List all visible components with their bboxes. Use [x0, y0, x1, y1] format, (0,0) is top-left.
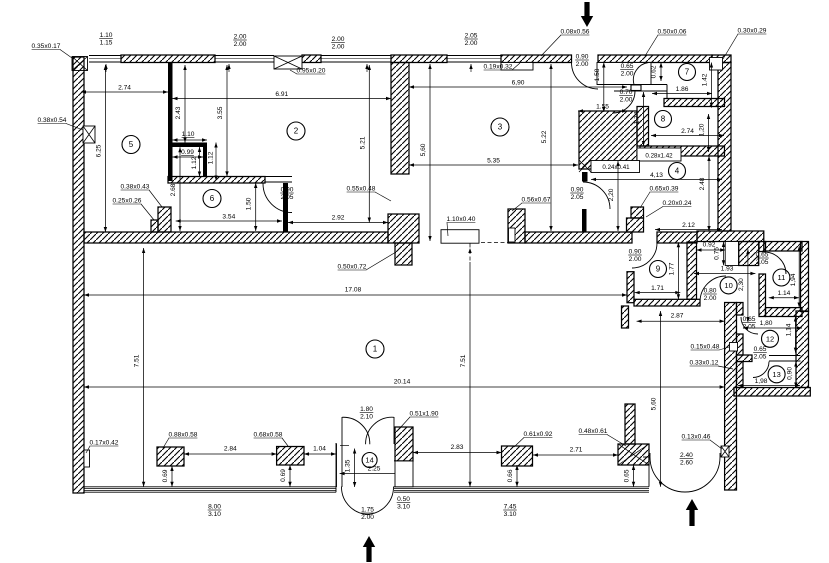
door D13 arc 0.65x2.05 [753, 362, 769, 378]
label 1.80/2.10 door14 inner [360, 406, 374, 420]
dim 2.25 door14 [340, 466, 412, 476]
svg-text:0.88x0.58: 0.88x0.58 [169, 432, 198, 439]
svg-text:0.24x0.41: 0.24x0.41 [602, 164, 630, 171]
svg-text:0.90: 0.90 [571, 187, 584, 194]
door D3 arc in top wall 0.90x2.00 [572, 63, 599, 90]
room6 top wall hatched (3.54 wall) [168, 177, 265, 184]
dim 0.69 pillar P1 [162, 466, 174, 487]
svg-text:1: 1 [373, 345, 378, 354]
room 2 label [287, 122, 305, 140]
dim 1.55 block [578, 104, 627, 113]
pillar P2 0.68x0.58 hatched [277, 447, 304, 466]
svg-text:1.10x0.40: 1.10x0.40 [447, 216, 476, 223]
wall above door to room 12 [737, 303, 744, 316]
dim 0.92 wing slot [697, 242, 726, 252]
dim 5.21 room2 height [359, 65, 371, 223]
entrance door 14 jamb block 0.51x1.90 hatched [395, 427, 413, 461]
svg-text:5.21: 5.21 [359, 136, 366, 149]
svg-text:1,94: 1,94 [790, 273, 797, 286]
svg-text:1.75: 1.75 [361, 507, 374, 514]
closet top wall (1.10) [168, 143, 207, 148]
central niche outline (top middle, 1.58 zone) [597, 63, 651, 85]
svg-text:4,13: 4,13 [650, 172, 663, 179]
door room6 header [265, 177, 292, 183]
svg-text:9: 9 [656, 265, 661, 274]
wall between rooms 8 and 4 hatched [640, 146, 725, 156]
dim 0.90 room13 height [786, 362, 797, 388]
dim 2.92 mid wall [288, 215, 388, 225]
threshold box at D8 [631, 85, 641, 91]
dim 4,13 room4 [591, 172, 722, 181]
svg-text:3.10: 3.10 [397, 503, 410, 510]
wall between rooms 7 and 8 hatched [664, 99, 725, 107]
svg-text:1.35: 1.35 [345, 459, 352, 472]
dim 5.35 room3 [409, 158, 578, 167]
door D6 arc 0.90x2.05 [263, 184, 292, 213]
entrance arrow bottom right [686, 499, 698, 526]
svg-text:2.05: 2.05 [756, 259, 769, 266]
label 0.25x0.26 [113, 198, 154, 221]
wall between rooms 10 and 11 lower hatched [759, 274, 766, 317]
wall left of room 8 hatched [637, 107, 649, 147]
label 0.95x0.20 [290, 68, 326, 75]
window W2 top 2.00 [215, 56, 274, 63]
mid main wall center section hatched [525, 232, 632, 243]
dim 0.65 pillar P4 [624, 465, 636, 487]
dim 2.12 room4 bottom [655, 222, 722, 231]
svg-text:0.48x0.61: 0.48x0.61 [579, 428, 608, 435]
wall between rooms 2 and 3 hatched [391, 63, 409, 175]
label 0.19x0.32 [484, 63, 520, 71]
room13 top wall thin [769, 356, 801, 362]
svg-text:5.35: 5.35 [487, 158, 500, 165]
svg-text:0.17x0.42: 0.17x0.42 [90, 440, 119, 447]
svg-text:17.08: 17.08 [345, 287, 362, 294]
svg-text:0.90: 0.90 [576, 54, 589, 61]
wing: bottom wall hatched [734, 388, 810, 397]
svg-text:2.05: 2.05 [281, 194, 294, 201]
svg-text:0.68x0.58: 0.68x0.58 [254, 432, 283, 439]
room 5 label [122, 136, 140, 154]
svg-text:11: 11 [778, 273, 786, 282]
top-right corner notch 0.30x0.29 [710, 58, 723, 71]
wing right wall lower (wider) [796, 311, 809, 388]
svg-text:2.00: 2.00 [576, 61, 589, 68]
label 0.90/2.00 door D3 [575, 54, 589, 68]
svg-text:1.04: 1.04 [313, 446, 326, 453]
svg-text:1,14: 1,14 [786, 323, 793, 336]
svg-text:2.43: 2.43 [175, 106, 182, 119]
label 1.10x0.40 [447, 216, 476, 236]
svg-text:1.10: 1.10 [100, 32, 113, 39]
svg-text:1.80: 1.80 [360, 406, 373, 413]
svg-text:10: 10 [724, 281, 732, 290]
hanging block 0.50x0.72 below mid wall [395, 243, 412, 265]
svg-text:2.87: 2.87 [671, 313, 684, 320]
room 14 label [362, 453, 377, 468]
dim 2,30 room10 [738, 249, 750, 322]
left wall pillar 0.38x0.54 with X [83, 126, 95, 143]
svg-text:2.92: 2.92 [332, 215, 345, 222]
svg-text:3.10: 3.10 [504, 511, 517, 518]
big central wall block hatched [579, 111, 637, 169]
label 0.65/2.05 door D12 [742, 316, 756, 330]
window W4 top 2.05 [447, 56, 501, 63]
dim 6,90 room3 [409, 80, 627, 89]
pillar P1 0.88x0.58 hatched [157, 447, 184, 466]
room 1 label [366, 340, 384, 358]
svg-text:0.65: 0.65 [624, 469, 631, 482]
dim 1.71 room9 [635, 285, 681, 294]
svg-text:2.00: 2.00 [234, 34, 247, 41]
labeled box 0.24x0.41 with X end [591, 161, 640, 173]
svg-text:2,30: 2,30 [738, 278, 745, 291]
svg-text:1.74: 1.74 [634, 111, 641, 124]
svg-text:0.51x1.90: 0.51x1.90 [410, 411, 439, 418]
svg-text:2: 2 [294, 127, 299, 136]
svg-text:3.54: 3.54 [222, 214, 235, 221]
dim 5.22 room3 right height [541, 64, 553, 231]
dim 2.71 [533, 447, 618, 457]
svg-text:6.25: 6.25 [96, 144, 103, 157]
dim 1.04 [304, 446, 336, 456]
svg-text:2.74: 2.74 [118, 85, 131, 92]
label 0.48x0.61 [579, 428, 626, 446]
svg-text:2.83: 2.83 [451, 444, 464, 451]
label 2.40/2.60 right entrance [680, 452, 694, 466]
bottom wall left terminal caps [335, 443, 337, 492]
svg-text:2.00: 2.00 [361, 514, 374, 521]
svg-text:0,90: 0,90 [786, 367, 793, 380]
svg-text:0.66: 0.66 [507, 469, 514, 482]
svg-text:14: 14 [365, 456, 373, 465]
label 0.56x0.67 [512, 197, 551, 212]
svg-text:0.99: 0.99 [181, 149, 194, 156]
wall stub right of room6 [283, 183, 288, 232]
dim 1.35 door14 [345, 449, 357, 488]
room 9 label [650, 261, 667, 278]
svg-text:2.00: 2.00 [332, 36, 345, 43]
svg-text:2.60: 2.60 [680, 459, 693, 466]
svg-text:0.95x0.20: 0.95x0.20 [297, 68, 326, 75]
door 14 frame lines [337, 417, 412, 487]
svg-text:0.69: 0.69 [162, 469, 169, 482]
room 4 label [669, 163, 686, 180]
svg-text:2.00: 2.00 [234, 41, 247, 48]
label 0.13x0.46 [682, 434, 722, 450]
dim 1,94 room11 [790, 246, 801, 308]
svg-text:5,60: 5,60 [651, 397, 658, 410]
label 7.45/3.10 [503, 504, 517, 518]
svg-text:3.10: 3.10 [208, 511, 221, 518]
svg-text:0.19x0.32: 0.19x0.32 [484, 64, 513, 71]
notch element 0.15x0.48 on right wall [730, 343, 738, 352]
closet dim line 1.12 inner [198, 147, 201, 177]
dim 2.68 [170, 147, 182, 231]
svg-text:2.00: 2.00 [704, 295, 717, 302]
svg-text:0.65: 0.65 [756, 252, 769, 259]
svg-text:1.14: 1.14 [777, 290, 790, 297]
room4 left wall upper [582, 172, 588, 182]
svg-text:3: 3 [498, 123, 503, 132]
mid main wall left section hatched [84, 232, 388, 243]
wing: mid wall extension hatched [697, 231, 764, 242]
label 0.38x0.54 [38, 117, 83, 130]
dim 0.62 [651, 63, 663, 82]
label 0.90/2.05 door D6 [280, 187, 294, 201]
dim 0.69 pillar P2 [280, 465, 292, 487]
room 3 label [491, 118, 509, 136]
label 0.30x0.29 [723, 28, 767, 60]
svg-text:0.80: 0.80 [704, 288, 717, 295]
label 2.00/2.00 window [233, 34, 247, 48]
svg-text:7: 7 [685, 68, 690, 77]
label 0.35x0.17 [32, 43, 72, 58]
dim 2.84 pillars [184, 446, 277, 456]
svg-text:2.05: 2.05 [754, 353, 767, 360]
svg-text:2.00: 2.00 [620, 96, 633, 103]
wall stub above pillar P4 hatched [625, 404, 635, 444]
wall between rooms 10 and 11 upper hatched [759, 242, 766, 252]
room9 bottom wall hatched [634, 299, 700, 306]
svg-text:0.90: 0.90 [281, 187, 294, 194]
label 0.17x0.42 [86, 440, 119, 454]
svg-text:0.50x0.72: 0.50x0.72 [338, 264, 367, 271]
label 0.38x0.43 [121, 184, 162, 208]
sill element 1.10x0.40 [441, 230, 479, 244]
dim 6.25 room5 height [96, 65, 108, 232]
svg-text:0.15x0.48: 0.15x0.48 [691, 344, 720, 351]
label 0.80/2.00 door D10 [703, 288, 717, 302]
dim 20.14 room1 [84, 379, 725, 389]
dim 3.55 [217, 65, 229, 176]
svg-text:0.08x0.56: 0.08x0.56 [561, 29, 590, 36]
wing: pier right of slot hatched [739, 242, 759, 266]
label 0.90/2.05 door D4 [570, 187, 584, 201]
svg-text:2.12: 2.12 [682, 222, 695, 229]
bottom shop-front wall (multi thin lines) left part [84, 486, 336, 488]
room 12 label [762, 330, 779, 347]
room9 right wall hatched [687, 242, 697, 299]
svg-text:2.00: 2.00 [629, 256, 642, 263]
svg-text:0.55x0.48: 0.55x0.48 [347, 186, 376, 193]
mid wall pillar 0.56x0.67 hatched [508, 209, 525, 243]
svg-text:1,80: 1,80 [760, 320, 773, 327]
white notch in pillar 0.56x0.67 [509, 228, 516, 242]
svg-text:7.51: 7.51 [460, 354, 467, 367]
door 14 upper leaf arcs (1.80x2.10) [342, 417, 370, 444]
svg-text:0.13x0.46: 0.13x0.46 [682, 434, 711, 441]
door14 jamb lower white part [395, 461, 413, 487]
door D12 arc 0.65x2.05 [741, 317, 758, 334]
element 0.95x0.20 in top wall [274, 56, 302, 69]
dim 1.42 room7 [701, 63, 713, 108]
dim 2.74 room8 [651, 128, 724, 137]
svg-text:6: 6 [210, 194, 215, 203]
label 0.70/2.00 door D8 [619, 89, 633, 103]
closet dim label 0.99 [181, 149, 194, 156]
left wall step 0.17x0.42 [84, 450, 90, 467]
svg-text:5.22: 5.22 [541, 130, 548, 143]
dim 1,20 room8 [699, 114, 711, 152]
room12 left wall hatched [737, 334, 744, 355]
pillar P3 0.61x0.92 hatched [502, 446, 533, 466]
entrance arrow top [581, 2, 593, 27]
dim 0.75 wing slot [714, 242, 726, 265]
wall between rooms 12 and 13 hatched [737, 355, 753, 362]
wing: top wall right step hatched [764, 242, 802, 252]
dim 2.87 wing opening [637, 313, 725, 323]
closet dim line 0.99 [173, 155, 204, 158]
door D9 arc 0.90x2.00 [632, 243, 657, 268]
dim 3.54 room6 [176, 214, 282, 223]
door D7 arc 0.65x2.00 [633, 63, 648, 85]
svg-text:0.75: 0.75 [714, 247, 721, 260]
svg-text:0.30x0.29: 0.30x0.29 [738, 28, 767, 35]
svg-text:2.10: 2.10 [360, 413, 373, 420]
svg-text:0.61x0.92: 0.61x0.92 [524, 431, 553, 438]
svg-text:2.00: 2.00 [332, 43, 345, 50]
dashed opening line in mid wall [481, 242, 508, 244]
label 0.20x0.24 [646, 200, 692, 217]
svg-text:8: 8 [661, 115, 666, 124]
label 1.10/1.15 window [99, 32, 113, 46]
left outer wall hatched [73, 57, 84, 493]
svg-text:8.00: 8.00 [208, 504, 221, 511]
svg-text:1.86: 1.86 [676, 86, 689, 93]
entrance arrow bottom door14 [363, 536, 375, 562]
window W3 top 2.00 [321, 56, 391, 63]
svg-text:2.71: 2.71 [570, 447, 583, 454]
label 0.50x0.72 [338, 252, 396, 271]
svg-text:1,20: 1,20 [699, 123, 706, 136]
room4 left wall lower stub [582, 209, 587, 232]
svg-text:6.91: 6.91 [275, 91, 288, 98]
svg-text:0.25x0.26: 0.25x0.26 [113, 198, 142, 205]
svg-text:1.15: 1.15 [100, 39, 113, 46]
pillar P4 0.48x0.61 hatched with X [618, 444, 649, 465]
main right wall below wing hatched [725, 303, 737, 491]
svg-text:0.69: 0.69 [280, 469, 287, 482]
svg-text:7.51: 7.51 [134, 354, 141, 367]
dim 1,98 room13 [738, 378, 800, 387]
label 2.05/2.00 window3 [464, 33, 478, 47]
wing: right outer wall hatched [801, 242, 809, 312]
label 0.50x0.06 [645, 29, 687, 57]
dim 1.58 [594, 63, 606, 113]
svg-text:2.05: 2.05 [465, 33, 478, 40]
room 7 label [679, 64, 696, 81]
svg-text:0.28x1.42: 0.28x1.42 [645, 153, 673, 160]
dim 5,60 room1 bottom right [651, 311, 663, 487]
svg-text:1.71: 1.71 [651, 285, 664, 292]
svg-text:0.33x0.12: 0.33x0.12 [690, 360, 719, 367]
wing: duct slot (0.92x0.75) [725, 242, 739, 266]
room 13 label [768, 366, 785, 383]
top wall notch 0.19x0.32 [501, 63, 533, 71]
right outer wall (top section) hatched [718, 63, 731, 232]
window dim arrows [104, 64, 107, 72]
top-left corner pillar with X [72, 57, 88, 71]
svg-text:0.90: 0.90 [629, 249, 642, 256]
svg-text:0.56x0.67: 0.56x0.67 [522, 197, 551, 204]
bottom shop-front wall right part [394, 486, 649, 488]
svg-text:2.48: 2.48 [699, 177, 706, 190]
svg-text:1.42: 1.42 [701, 73, 708, 86]
svg-text:3.55: 3.55 [217, 106, 224, 119]
dim 1.86 room7 [652, 86, 712, 95]
outer walls: top wall hatched segments [121, 55, 215, 63]
svg-text:0.62: 0.62 [651, 65, 658, 78]
label 0.15x0.48 [691, 344, 736, 351]
room 8 label [655, 111, 672, 128]
svg-text:1.12: 1.12 [208, 151, 215, 164]
label 0.33x0.12 [690, 360, 733, 370]
svg-text:7.45: 7.45 [504, 504, 517, 511]
closet dim line 1.12 outer [214, 143, 217, 181]
closet dim line 1.10 [173, 138, 208, 141]
mid main wall right of room9 door hatched [657, 232, 697, 243]
svg-text:0.50: 0.50 [397, 496, 410, 503]
dim 1,80 room12 [743, 320, 802, 330]
svg-text:2.68: 2.68 [170, 183, 177, 196]
interior wall between rooms 5 and 2 (x168) [168, 63, 173, 182]
svg-text:0.65x0.39: 0.65x0.39 [650, 186, 679, 193]
svg-text:1,98: 1,98 [755, 378, 768, 385]
svg-text:2.05: 2.05 [743, 323, 756, 330]
label 0.65/2.05 door D11 [755, 252, 769, 266]
door D10 arc 0.80x2.00 (room1 to wing) [700, 276, 726, 302]
svg-text:2.00: 2.00 [465, 40, 478, 47]
label 0.90/2.00 door D9 [628, 249, 642, 263]
svg-text:0.65: 0.65 [743, 316, 756, 323]
label 2.00/2.00 window2 [331, 36, 345, 50]
dim 1.50 room6 [246, 183, 258, 231]
mid wall pillar 0.55x0.48 hatched [388, 214, 419, 243]
pier 0.65x0.39 / 0.20x0.24 above mid wall [631, 207, 644, 218]
label 0.65/2.00 door D7 [620, 63, 634, 77]
dim 7.51 room1 left [134, 248, 146, 487]
dim 0.66 pillar P3 [507, 465, 519, 487]
entrance door right (2.40x2.60) leaf arcs [650, 457, 685, 492]
door 14 lower leaf arcs (1.75x2.00) [341, 487, 370, 515]
X mark 0.13x0.46 on right wall [721, 446, 729, 457]
svg-text:0.65: 0.65 [621, 63, 634, 70]
svg-text:5: 5 [129, 140, 134, 149]
label 0.51x1.90 [400, 411, 439, 429]
room 10 label [720, 277, 737, 294]
svg-text:1.93: 1.93 [721, 266, 734, 273]
label 0.61x0.92 [514, 431, 553, 447]
svg-text:0.20x0.24: 0.20x0.24 [663, 200, 692, 207]
door D4 arc 0.90x2.05 [583, 182, 610, 209]
dim 1.74 [634, 92, 646, 146]
dim 5,60 room3 height [420, 64, 432, 241]
svg-text:0.65: 0.65 [754, 346, 767, 353]
label 0.55x0.48 [347, 186, 391, 202]
dim 17.08 room1 [84, 287, 627, 297]
labeled box 0.28x1.42 [637, 148, 681, 161]
closet right wall [203, 147, 207, 177]
door D8 arc 0.70x2.00 [613, 91, 635, 113]
room 6 label [203, 190, 221, 208]
wall between rooms 11 and 12 hatched [766, 308, 803, 317]
label 0.65/2.05 door D13 [753, 346, 767, 360]
dim 2.43 [175, 65, 187, 143]
label 0.65x0.39 [640, 186, 679, 209]
room9 left wall lower stub (jogged) [622, 306, 629, 328]
dim 2.74 room5 top [81, 85, 168, 94]
